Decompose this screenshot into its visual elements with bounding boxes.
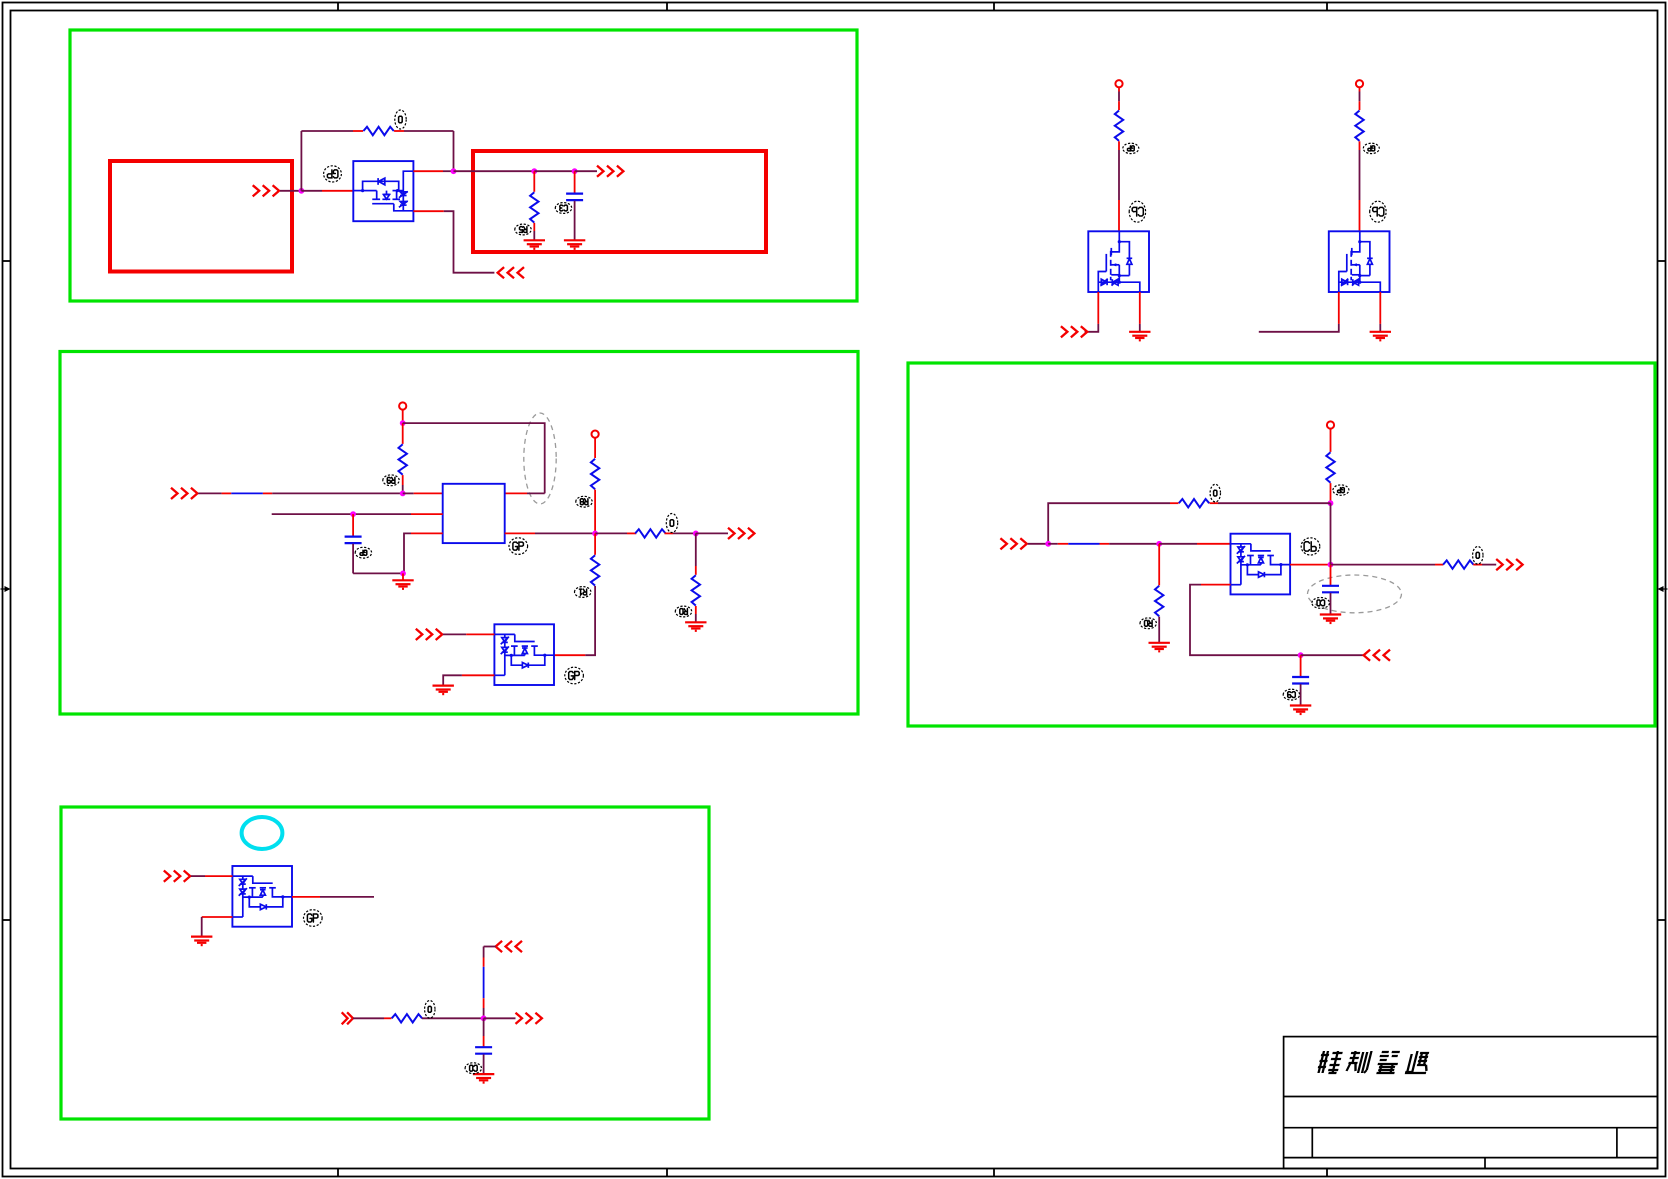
wire blue segment (483, 967, 485, 998)
wire (1301, 654, 1364, 656)
wire (411, 532, 443, 534)
wire (280, 190, 301, 192)
node A1 (299, 188, 305, 194)
resistor R13 (1179, 499, 1209, 507)
wire (483, 1008, 485, 1018)
wire (695, 614, 697, 622)
resistor R1 (363, 127, 393, 135)
wire (505, 492, 527, 494)
label R7 ref (576, 496, 592, 507)
IC U1 (443, 484, 505, 543)
connector D2 output >>> (516, 1013, 542, 1024)
wire (352, 544, 354, 574)
wire (533, 223, 535, 231)
ground (1290, 706, 1311, 715)
wire (594, 490, 596, 534)
label R14 value (1473, 547, 1483, 565)
wire blue segment (231, 492, 263, 494)
wire (1109, 543, 1159, 545)
highlight box red 2 (473, 151, 766, 252)
label GP Q6 (304, 910, 323, 927)
wire (1048, 503, 1170, 544)
wire (1201, 584, 1231, 586)
wire (1435, 564, 1443, 566)
wire (533, 171, 535, 192)
label R16 value (425, 1001, 435, 1019)
wire (483, 947, 485, 958)
wire (1330, 503, 1332, 564)
wire (404, 130, 454, 132)
wire (527, 492, 545, 494)
wire (292, 896, 320, 898)
label C5 ref (465, 1063, 481, 1074)
wire (422, 1017, 484, 1019)
label R15 ref (1140, 618, 1156, 629)
wire (534, 170, 574, 172)
node A4 (572, 168, 578, 174)
wire (301, 190, 322, 192)
resistor R16 (392, 1014, 422, 1022)
wire (1085, 324, 1099, 332)
label GP 3 (1363, 143, 1379, 153)
wire (413, 170, 443, 172)
node A2 (451, 168, 457, 174)
wire (483, 1036, 485, 1046)
wire (411, 513, 443, 515)
wire (535, 532, 595, 534)
connector D return <<< (496, 941, 522, 952)
label R6 ref (383, 475, 399, 486)
highlight box green C (908, 363, 1655, 726)
wire (484, 946, 496, 948)
connector B output >>> (728, 528, 754, 539)
connector D2 input >> (342, 1012, 353, 1024)
wire (1158, 544, 1160, 586)
node C5 (1298, 652, 1304, 658)
label C4 ref (1283, 689, 1299, 700)
power node PB2 (592, 431, 599, 438)
wire (1473, 564, 1482, 566)
title block (1284, 1037, 1658, 1169)
wire (1170, 502, 1179, 504)
capacitor C5 (475, 1047, 492, 1054)
wire (402, 423, 404, 444)
wire (695, 533, 697, 566)
resistor R11 (591, 555, 599, 585)
wire (1330, 565, 1332, 585)
power node PB (399, 402, 406, 409)
wire (402, 475, 404, 485)
wire (594, 533, 596, 554)
ground (1149, 643, 1170, 652)
wire (1359, 101, 1361, 110)
wire (191, 875, 205, 877)
node C1 (1328, 500, 1334, 506)
label Q2 ref (1129, 201, 1145, 222)
highlight box red 1 (110, 161, 292, 272)
wire (1359, 87, 1361, 91)
wire (1139, 324, 1141, 332)
wire (353, 130, 363, 132)
transistor Q5 (1231, 534, 1291, 595)
capacitor C4 (1292, 677, 1309, 684)
label R8 value (666, 514, 677, 533)
wire (1259, 324, 1339, 332)
wire (483, 1018, 485, 1036)
wire (322, 190, 353, 192)
resistor R8 (635, 529, 665, 537)
wire (466, 633, 494, 635)
wire (462, 674, 495, 676)
ground (1320, 615, 1341, 624)
node B2 (400, 491, 406, 497)
wire (1300, 655, 1302, 676)
transistor Q4 (494, 624, 554, 685)
connector Q2 gate >>> (1061, 326, 1087, 337)
wire (384, 1017, 392, 1019)
wire (453, 131, 455, 171)
wire (1159, 543, 1197, 545)
wire (403, 423, 545, 493)
transistor Q1 (353, 161, 413, 221)
wire (483, 1054, 485, 1074)
wire (554, 654, 585, 656)
wire (301, 130, 353, 132)
transistor Q2 (1088, 231, 1149, 292)
ground (1370, 332, 1391, 341)
ground (473, 1074, 494, 1083)
wire (1158, 617, 1160, 643)
node B3 (350, 511, 356, 517)
wire (505, 532, 535, 534)
wire (1331, 564, 1436, 566)
highlight box green B (60, 352, 858, 715)
ground (564, 240, 585, 249)
label C2 ref (355, 547, 371, 558)
connector B input >>> (171, 488, 197, 499)
node B4 (400, 571, 406, 577)
resistor R10 (692, 575, 700, 605)
wire (414, 492, 443, 494)
connector Q4 input >>> (416, 629, 442, 640)
label R1 value (395, 110, 406, 129)
wire (1058, 543, 1069, 545)
wire (263, 492, 272, 494)
node C3 (1156, 541, 1162, 547)
wire (1118, 141, 1120, 150)
wire (198, 492, 221, 494)
wire (695, 606, 697, 614)
wire blue segment (1068, 543, 1099, 545)
wire (484, 1017, 516, 1019)
label R2 ref (515, 224, 531, 235)
wire (1118, 92, 1120, 102)
label Q5 ref (1301, 538, 1320, 555)
wire (1359, 92, 1361, 102)
label R10 ref (675, 606, 691, 617)
connector C return <<< (1364, 650, 1390, 661)
connector A input >>> (253, 185, 279, 196)
resistor R14 (1443, 560, 1473, 568)
label R11 ref (575, 587, 591, 598)
connector D input >>> (164, 871, 190, 882)
wire (413, 210, 443, 212)
wire (1290, 564, 1328, 566)
wire (696, 532, 728, 534)
label R13 value (1210, 484, 1220, 502)
wire (483, 958, 485, 967)
wire (444, 211, 495, 273)
wire (300, 131, 302, 191)
wire (594, 437, 596, 458)
dashed ellipse mark 1 (524, 413, 556, 504)
wire (1118, 101, 1120, 110)
wire (1028, 543, 1049, 545)
wire (595, 532, 627, 534)
wire (1118, 200, 1120, 231)
resistor R3p (1355, 111, 1363, 141)
wire (402, 573, 404, 580)
wire (454, 170, 535, 172)
wire (320, 896, 374, 898)
capacitor C1 (566, 194, 583, 201)
dashed ellipse mark 2 (1308, 575, 1402, 613)
capacitor C3 (1322, 586, 1339, 593)
wire (443, 675, 462, 685)
wire (402, 485, 404, 493)
resistor R2 (530, 192, 538, 222)
wire (575, 170, 597, 172)
resistor R15 (1155, 586, 1163, 616)
ground (1129, 332, 1150, 341)
wire (403, 492, 414, 494)
node C4 (1328, 562, 1334, 568)
wire (695, 566, 697, 575)
wire (1097, 292, 1099, 324)
wire (1210, 502, 1219, 504)
wire (352, 514, 354, 536)
wire (402, 409, 404, 423)
wire (1330, 428, 1332, 452)
wire (1359, 141, 1361, 150)
transistor Q3 (1329, 231, 1390, 292)
wire (1359, 200, 1361, 231)
wire (1482, 564, 1496, 566)
wire (585, 586, 595, 655)
resistor R12 (1326, 452, 1334, 482)
power node PC (1327, 421, 1334, 428)
wire (1118, 87, 1120, 91)
wire (222, 492, 232, 494)
wire (353, 572, 403, 574)
connector A return <<< (498, 267, 524, 278)
wire (1100, 543, 1110, 545)
label C1 ref (555, 203, 571, 214)
power node P3 (1356, 80, 1363, 87)
resistor R7 (591, 459, 599, 489)
wire (1118, 150, 1120, 200)
node B5 (592, 531, 598, 537)
label C3 ref (1312, 598, 1330, 609)
wire (1359, 150, 1361, 200)
wire (205, 875, 232, 877)
wire (394, 130, 404, 132)
label GP (324, 166, 342, 182)
wire (483, 998, 485, 1008)
wire (272, 492, 403, 494)
wire (627, 532, 636, 534)
wire (1190, 585, 1301, 656)
connector A output >>> (597, 166, 623, 177)
node B1 (400, 420, 406, 426)
wire (1379, 292, 1381, 324)
wire (404, 533, 411, 573)
power node P2 (1115, 80, 1122, 87)
label R12 ref (1333, 485, 1349, 495)
node D1 (481, 1015, 487, 1021)
label GP 2 (1123, 143, 1139, 153)
wire (665, 532, 674, 534)
wire (201, 917, 203, 937)
wire (1330, 593, 1332, 615)
label GP B (509, 538, 528, 555)
wire (1379, 324, 1381, 332)
ground (524, 240, 545, 249)
label Q3 ref (1370, 201, 1386, 222)
wire (1048, 543, 1058, 545)
transistor Q6 (232, 866, 292, 927)
node B6 (693, 531, 699, 537)
wire (443, 633, 466, 635)
node A3 (531, 168, 537, 174)
wire (1300, 684, 1302, 705)
highlight box green D (61, 807, 709, 1119)
wire (1330, 483, 1332, 503)
connector C input >>> (1000, 538, 1026, 549)
label GP Q4 (565, 667, 584, 684)
wire (673, 532, 696, 534)
wire (272, 513, 411, 515)
highlight box green A (70, 30, 857, 301)
node C2 (1045, 541, 1051, 547)
wire (353, 1017, 384, 1019)
wire (574, 171, 576, 193)
connector C output >>> (1496, 559, 1522, 570)
wire (533, 231, 535, 240)
resistor R6 (399, 444, 407, 474)
wire (574, 201, 576, 241)
wire (1218, 502, 1331, 504)
wire (1197, 543, 1231, 545)
resistor R2p (1115, 111, 1123, 141)
ground (433, 686, 454, 695)
company name text (1317, 1051, 1343, 1073)
wire (1338, 292, 1340, 324)
wire (202, 916, 233, 918)
wire (1139, 292, 1141, 324)
ground (392, 580, 413, 589)
ground (685, 622, 706, 631)
ground (191, 937, 212, 946)
cyan ellipse mark (242, 817, 283, 849)
wire (443, 170, 454, 172)
capacitor C2 (345, 537, 362, 544)
